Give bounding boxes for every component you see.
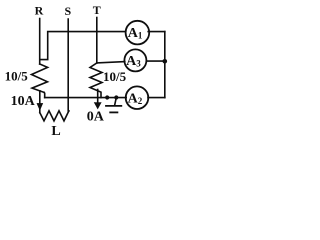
wire A1 to right rail: [148, 31, 165, 33]
wire A2 to right rail: [148, 97, 165, 99]
node T label: [93, 3, 101, 17]
ammeter A3: [124, 49, 146, 71]
arrow 10A current: [37, 103, 43, 110]
ground: [115, 98, 117, 106]
junction dot ground: [114, 95, 118, 99]
wire A3 to right rail: [146, 60, 165, 62]
svg-text:T: T: [93, 3, 101, 17]
label 0A: [87, 110, 105, 125]
svg-text:A2: A2: [128, 91, 143, 106]
resistor 10/5 left: [32, 64, 48, 92]
wire R phase vertical: [39, 19, 41, 65]
label L: [51, 124, 60, 139]
wire tap from R to top horizontal: [40, 32, 125, 60]
ammeter A1: [126, 21, 150, 45]
svg-text:A1: A1: [128, 26, 143, 41]
label 10A: [11, 94, 36, 109]
label 10/5 middle: [103, 69, 127, 84]
ammeter A2: [126, 86, 149, 109]
wire bottom horizontal node: [45, 97, 127, 99]
wire T to ammeter A3: [97, 62, 125, 63]
inductor L zigzag: [40, 111, 69, 121]
junction dot right rail: [163, 59, 168, 64]
wire S phase vertical: [67, 19, 70, 111]
svg-text:10/5: 10/5: [5, 68, 29, 83]
svg-text:L: L: [51, 124, 60, 139]
svg-text:R: R: [35, 4, 44, 18]
arrow 0A current: [97, 90, 99, 104]
wire resistor bottom tap down-right: [43, 92, 46, 97]
label 10/5 left: [5, 68, 29, 83]
svg-text:0A: 0A: [87, 110, 105, 125]
junction dot left: [105, 95, 109, 99]
svg-text:A3: A3: [126, 54, 141, 69]
svg-text:10A: 10A: [11, 94, 36, 109]
wire T phase vertical: [96, 18, 98, 64]
svg-text:10/5: 10/5: [103, 69, 127, 84]
node S label: [64, 4, 71, 18]
wire R continues down to L: [39, 91, 41, 113]
svg-text:S: S: [64, 4, 71, 18]
wire right rail: [164, 32, 166, 98]
resistor 10/5 middle: [90, 63, 102, 98]
node R label: [35, 4, 44, 18]
